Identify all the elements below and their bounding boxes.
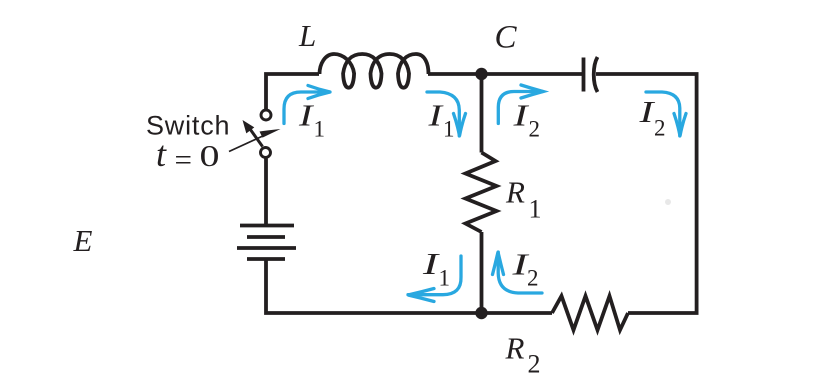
- svg-text:I: I: [512, 98, 530, 133]
- svg-text:L: L: [298, 18, 316, 53]
- svg-text:2: 2: [654, 116, 666, 141]
- svg-text:1: 1: [314, 117, 326, 142]
- svg-text:R: R: [505, 331, 525, 366]
- svg-text:2: 2: [528, 350, 541, 379]
- svg-text:I: I: [427, 98, 444, 133]
- svg-text:0: 0: [200, 138, 220, 173]
- svg-text:E: E: [73, 223, 93, 258]
- svg-text:t: t: [156, 134, 167, 174]
- svg-text:=: =: [175, 142, 192, 177]
- svg-text:I: I: [298, 98, 315, 133]
- svg-text:1: 1: [529, 195, 542, 224]
- svg-text:1: 1: [439, 266, 451, 291]
- svg-text:C: C: [495, 20, 518, 56]
- svg-text:2: 2: [527, 266, 539, 291]
- svg-text:R: R: [505, 175, 525, 210]
- svg-text:1: 1: [443, 117, 455, 142]
- svg-text:2: 2: [529, 117, 541, 142]
